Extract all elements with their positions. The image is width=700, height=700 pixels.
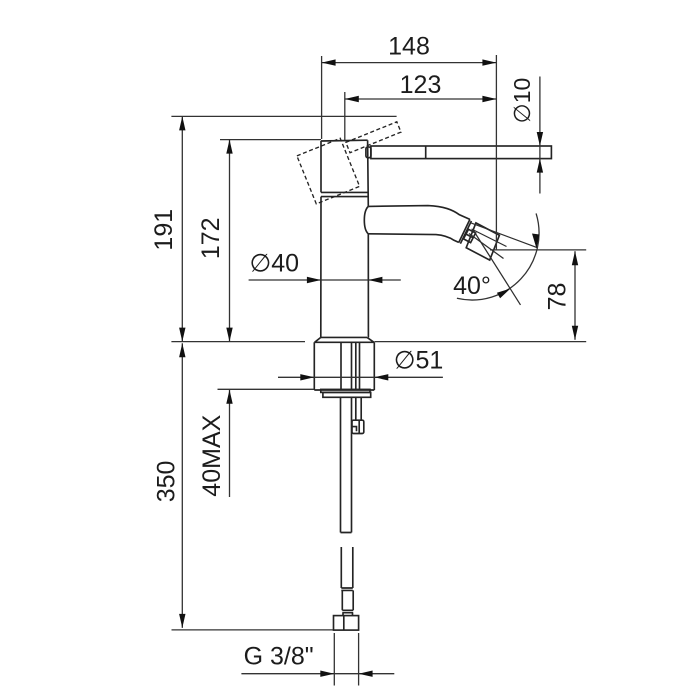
dimension line 350 [181,343,183,628]
extension line cap top left [220,139,321,141]
counter reference line left [171,341,305,343]
handle lever bar [371,146,552,159]
dimension line dia10 [539,77,541,194]
svg-text:∅51: ∅51 [394,347,444,375]
lever bar divider [425,146,427,159]
arrowheads 172 [226,140,232,154]
aerator block [466,223,499,260]
arrowheads 148 [322,59,336,65]
faucet body column [321,140,369,337]
dimension line 78 [574,251,576,340]
angle arc 40deg [457,213,539,300]
svg-text:172: 172 [197,217,225,259]
svg-text:148: 148 [388,33,430,61]
svg-text:∅10: ∅10 [509,78,535,124]
svg-text:∅40: ∅40 [250,250,300,278]
spout tube top edge [368,206,470,220]
arrowheads 123 [345,96,359,102]
arrowheads 78 [572,251,578,265]
aerator clip detail [464,229,476,242]
extension line deck bottom [218,388,315,390]
spray fan line C [469,234,504,259]
spray axis ray 40deg [474,231,521,305]
extension line hose end [172,629,334,631]
flexible hose lower [342,590,353,615]
dimension line dia40 [249,279,401,281]
dashed lever (raised position) [346,122,401,153]
arrowheads 191 [179,116,185,130]
arrowhead angle arc top [532,234,540,249]
svg-text:350: 350 [153,461,181,503]
deck plate upper [321,389,370,392]
extension line spout tip vertical [495,55,497,249]
spout root fillet [364,206,368,233]
extension line handle pivot [344,92,346,140]
spout tip reference line [490,249,586,251]
spout joint line [460,221,471,244]
dimension line 40MAX [229,390,231,497]
cap top edge [321,139,368,142]
arrowhead 40MAX [226,390,232,404]
extension lines G3/8 [334,633,358,686]
spout tube end face [459,219,470,242]
arrowheads 350 [179,343,185,357]
spray fan line B [472,229,507,247]
arrowheads dia51 [300,374,314,380]
extension line raised handle top [171,115,396,117]
svg-text:123: 123 [400,71,442,99]
svg-text:G 3/8": G 3/8" [244,643,314,671]
spray fan line A [471,223,537,248]
lever connector [366,147,371,158]
arrowhead angle arc bottom [497,289,511,299]
dimension line 148 [322,62,497,64]
svg-text:78: 78 [544,283,572,311]
arrowheads G3/8 [320,671,334,677]
arrowheads dia40 [307,277,321,283]
column bottom joint line [321,336,367,338]
dimension line 172 [229,140,231,342]
dimension line dia51 [278,376,443,378]
counter reference line right [375,341,587,343]
threaded stud lines inside base [341,343,360,390]
hose nut G3/8 [334,616,359,631]
hose stub [356,397,361,420]
dimension line 191 [181,116,183,341]
svg-text:191: 191 [150,209,178,251]
threaded rod [341,397,352,532]
cap bottom joint ring [321,192,368,196]
svg-text:40MAX: 40MAX [198,414,226,496]
extension line body left top [321,56,323,139]
base flange block [314,337,374,390]
arrowheads dia10 [537,132,543,146]
flexible hose upper [341,547,353,590]
svg-text:40°: 40° [453,272,491,300]
dimension line 123 [345,98,497,100]
spout tube bottom edge [368,234,458,243]
mounting clip [352,420,364,433]
deck plate lower [323,392,371,397]
dashed handle cap (raised position) [297,138,360,204]
dimension line G3/8 [241,673,394,675]
